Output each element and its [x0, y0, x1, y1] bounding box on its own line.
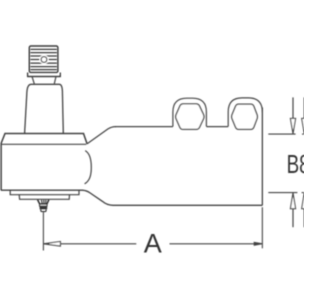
dim B bottom extension line [268, 192, 297, 194]
dim B top arrowhead [290, 118, 295, 133]
housing inner top line [1, 143, 86, 145]
clamp nut 2 hexagon [232, 104, 258, 129]
grease fitting tip [41, 210, 46, 212]
taper to tube top [87, 127, 116, 144]
lower plate wide [10, 190, 79, 195]
tube top line left segment [115, 126, 173, 128]
stud thread lines [31, 49, 56, 69]
clipped second top arrow at edge [303, 97, 305, 118]
lower plate narrow [19, 195, 69, 200]
dim B top arrow stem [292, 97, 294, 118]
dim B bottom arrow stem [292, 209, 294, 228]
socket arc [85, 151, 92, 184]
dim A right extension line [261, 207, 263, 248]
tapered shaft [25, 84, 64, 133]
tube right end edge [261, 108, 263, 206]
housing bottom edge [1, 189, 83, 191]
dim A line left segment [60, 243, 136, 245]
grease fitting ring [40, 204, 47, 206]
grease fitting flare [38, 200, 49, 204]
tube top line middle segment [206, 126, 228, 128]
grease fitting ribs [41, 200, 44, 204]
clamp nut 2 outer [228, 98, 262, 127]
stud collar [28, 73, 61, 77]
svg-text:A: A [144, 228, 162, 258]
dim B bottom arrowhead [290, 193, 295, 209]
dim A right arrowhead [254, 242, 262, 245]
clipped second bottom arrow at edge [303, 209, 305, 228]
grease fitting band [40, 207, 48, 210]
stud neck [32, 77, 34, 84]
clamp nut 1 outer [173, 98, 207, 126]
dim B top extension line [268, 133, 295, 135]
ball housing outline [1, 134, 87, 191]
svg-text:B8: B8 [287, 150, 304, 178]
taper to tube bottom [83, 190, 263, 205]
clamp nut 1 hexagon [176, 104, 204, 129]
dim A line right segment [170, 243, 255, 245]
threaded stud body outline [29, 46, 58, 72]
dim A left arrowhead [43, 242, 60, 247]
cotter pin hole [39, 55, 48, 64]
dim A left extension line [42, 212, 44, 250]
